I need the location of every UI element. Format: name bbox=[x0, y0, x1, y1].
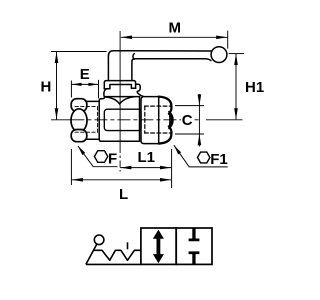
symbol box closed position bbox=[176, 228, 212, 264]
svg-text:F1: F1 bbox=[210, 151, 228, 168]
dim L1 line bbox=[120, 167, 171, 169]
union nut cusp leaf bbox=[169, 112, 173, 129]
svg-text:H: H bbox=[41, 79, 52, 96]
body boss top bbox=[105, 96, 140, 98]
chevron seat right arc bbox=[120, 97, 135, 104]
svg-text:E: E bbox=[80, 66, 90, 83]
dim H1 top extension bbox=[229, 53, 244, 55]
actuator baseline bbox=[86, 263, 141, 265]
cartridge bbox=[104, 109, 141, 130]
arrow H up bbox=[55, 52, 59, 63]
pipe bottom bbox=[87, 138, 99, 140]
stem nut foot left bbox=[104, 85, 135, 89]
horizontal axis centerline bbox=[51, 119, 71, 121]
handle lever left arm bbox=[107, 56, 109, 80]
svg-text:H1: H1 bbox=[245, 79, 264, 96]
symbol box open position bbox=[141, 228, 176, 264]
body right edge bbox=[139, 97, 141, 142]
union nut bottom lobe bbox=[159, 126, 172, 143]
centerlines bbox=[51, 31, 243, 172]
body top left bbox=[99, 97, 105, 101]
blocked port bottom T bbox=[189, 251, 200, 264]
svg-text:F: F bbox=[108, 151, 117, 168]
dim C top extension bbox=[175, 105, 204, 107]
lever stick bbox=[86, 244, 97, 264]
arrow H down bbox=[55, 108, 59, 119]
bonnet left side bbox=[104, 89, 106, 97]
arrow M right bbox=[216, 36, 227, 40]
dim C line bbox=[198, 94, 200, 146]
leader F line bbox=[78, 146, 118, 167]
handle ball end bbox=[211, 47, 227, 63]
lever knob bbox=[94, 235, 104, 245]
stem nut right ear bbox=[136, 84, 144, 96]
body bottom edge bbox=[101, 140, 139, 142]
svg-text:M: M bbox=[169, 19, 182, 36]
arrow C down bbox=[198, 94, 202, 105]
union nut hidden thread lines bbox=[145, 106, 171, 133]
chevron seat left arc bbox=[105, 97, 119, 104]
dim C bottom extension bbox=[175, 133, 204, 135]
union collar bbox=[141, 97, 159, 144]
detent zigzag bbox=[94, 250, 141, 260]
arrow C up bbox=[198, 134, 202, 145]
arrow H1 down bbox=[234, 108, 238, 119]
schematic symbol bbox=[141, 228, 212, 264]
detent index tick bbox=[127, 242, 129, 249]
svg-text:L1: L1 bbox=[138, 149, 156, 166]
dim E left extension bbox=[70, 81, 72, 98]
pipe top bbox=[87, 100, 99, 102]
dim H top extension bbox=[51, 51, 107, 53]
arrow leader F1 bbox=[174, 145, 181, 154]
dim L line bbox=[72, 179, 172, 181]
union nut divider bbox=[158, 97, 160, 144]
svg-text:C: C bbox=[182, 112, 193, 129]
dim L1 right extension bbox=[171, 149, 173, 188]
left hex nut middle lobe bbox=[71, 109, 87, 132]
flow double arrow bbox=[153, 230, 164, 264]
nut bore hidden lines bbox=[75, 107, 98, 133]
dim H line bbox=[56, 52, 58, 120]
dim E right extension bbox=[98, 80, 100, 99]
blocked port top T bbox=[189, 228, 200, 241]
hexagon symbol F bbox=[94, 151, 107, 163]
body left edge bbox=[99, 101, 101, 142]
union nut top lobe bbox=[159, 97, 172, 114]
dimension labels bbox=[41, 19, 265, 203]
arrow leader F bbox=[78, 146, 85, 155]
dim E line bbox=[72, 83, 99, 85]
handle lever right arm bbox=[132, 59, 135, 81]
arrow M left bbox=[121, 36, 132, 40]
arrow E left bbox=[72, 83, 82, 86]
dimensions bbox=[51, 31, 244, 188]
arrow L left bbox=[72, 178, 83, 182]
handle curl detail bbox=[133, 54, 134, 60]
svg-text:L: L bbox=[119, 186, 128, 203]
dim L left extension bbox=[70, 149, 72, 185]
arrow E right bbox=[88, 83, 98, 86]
dim M line bbox=[121, 36, 228, 38]
hexagon symbol F1 bbox=[198, 152, 210, 163]
dim H1 line bbox=[235, 54, 237, 120]
left hex nut bottom lobe bbox=[71, 130, 87, 142]
leader F1 line bbox=[174, 145, 228, 167]
arrow L right bbox=[160, 178, 171, 182]
main valve drawing bbox=[71, 47, 227, 144]
arrow L1 right bbox=[160, 166, 171, 170]
arrow H1 up bbox=[234, 54, 238, 65]
arrow L1 left bbox=[120, 166, 131, 170]
handle lever top edge bbox=[108, 51, 211, 56]
handle lever bottom edge bbox=[135, 59, 211, 61]
left hex nut top lobe bbox=[71, 99, 87, 112]
stem nut bbox=[104, 81, 135, 89]
dim M right extension bbox=[227, 31, 229, 49]
vertical stem centerline bbox=[119, 31, 121, 146]
arrowheads bbox=[55, 36, 238, 182]
